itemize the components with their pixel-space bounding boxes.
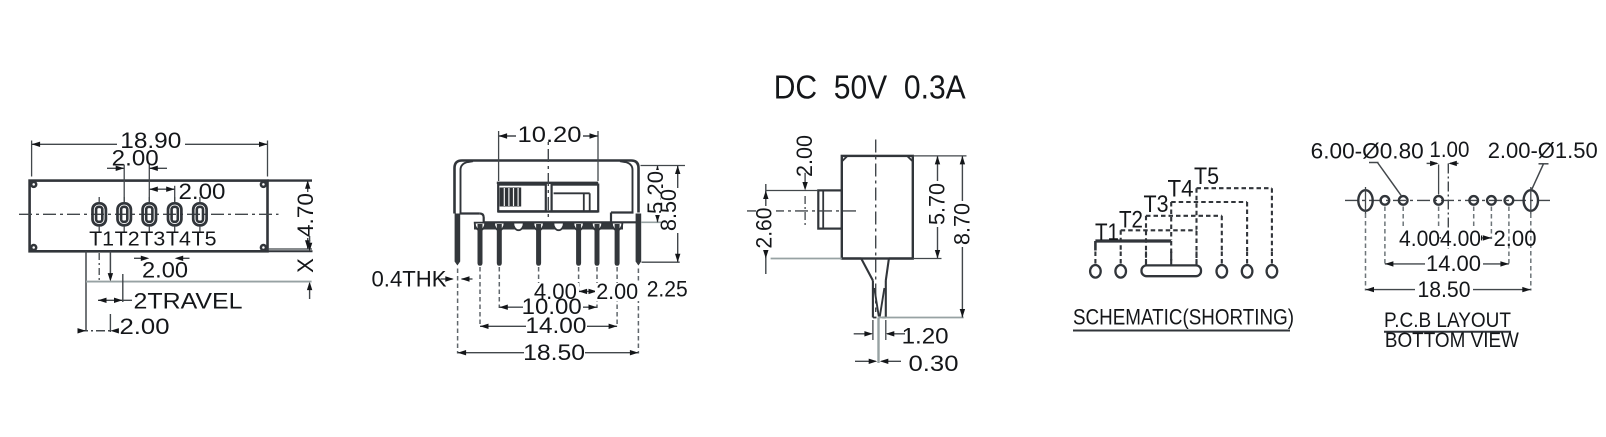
pcb layout: hole extension lines [1366, 207, 1531, 291]
front view: dimension 10.00 [499, 294, 597, 319]
top view: terminal T4 contact [168, 197, 181, 232]
side view: bottom edge and solder pin funnel [842, 259, 913, 318]
side view: vertical centerline [875, 140, 877, 313]
pcb layout: dimension row 4.00 4.00 2.00 [1399, 226, 1537, 251]
svg-text:BOTTOM VIEW: BOTTOM VIEW [1385, 329, 1519, 352]
top view: dimension 2.00 (T3-T4 pitch) [149, 179, 225, 204]
front view: dimension 14.00 [480, 313, 617, 338]
front view: slot opening and slider knob [497, 183, 598, 212]
side view: knob [818, 190, 842, 228]
svg-text:2TRAVEL: 2TRAVEL [134, 289, 243, 314]
side view: body outline [842, 156, 913, 259]
svg-text:4.00: 4.00 [1440, 226, 1481, 251]
side view: dimension 0.30 pin thickness [855, 351, 959, 376]
svg-text:T4: T4 [166, 228, 191, 251]
top view: dimension 2TRAVEL [98, 274, 243, 314]
pcb layout: horizontal centerline [1345, 199, 1552, 201]
front view: dimension 8.50 with extension lines [642, 166, 682, 263]
front view: dimension row 4.00 / 2.00 / 2.25 [531, 277, 688, 304]
pcb layout: caption P.C.B LAYOUT [1384, 309, 1511, 332]
schematic: wire T1 common (solid) [1095, 241, 1171, 251]
top view: dimension 4.70 height [268, 180, 319, 249]
side view: knob horizontal centerline [747, 210, 858, 212]
svg-text:T3: T3 [1144, 191, 1169, 218]
svg-text:0.4THK: 0.4THK [372, 267, 447, 292]
schematic: wire T4 (dashed) [1171, 202, 1247, 265]
svg-text:1.00: 1.00 [1429, 137, 1469, 162]
svg-text:10.20: 10.20 [518, 122, 582, 147]
schematic: caption SCHEMATIC(SHORTING) [1073, 305, 1294, 331]
front view: extension lines below pins [458, 267, 639, 354]
side view: pin wire 0.30 thick [877, 318, 879, 364]
front view: 0.4THK thickness callout [372, 267, 473, 292]
pcb layout: dimension 18.50 [1366, 277, 1531, 302]
pcb layout: mounting hole right 1.50 [1524, 187, 1538, 214]
svg-text:2.00: 2.00 [142, 258, 188, 283]
svg-text:T1: T1 [89, 228, 114, 251]
front view: bottom edge with terminal arch bosses [474, 222, 640, 230]
front view: left mounting leg 0.4THK [455, 214, 461, 266]
front view: vertical centerline [547, 125, 549, 218]
side view: dimension 2.00 knob offset [766, 135, 818, 228]
front view: right mounting leg [636, 214, 642, 266]
front view: dimension 5.20 with extension lines [641, 166, 686, 223]
svg-text:18.50: 18.50 [523, 340, 585, 365]
top view: corner rivet holes [31, 182, 266, 250]
schematic: wire T5 (dashed) [1197, 188, 1272, 264]
schematic: contact stubs [1095, 252, 1272, 265]
svg-text:T2: T2 [115, 228, 140, 251]
top view: dimension 2.00 (T2-T3 pitch) [107, 146, 167, 203]
schematic: wire T3 (dashed) [1146, 216, 1222, 265]
front view: metal cover outline [455, 161, 639, 224]
pcb layout: mounting hole left 1.50 [1358, 187, 1372, 214]
top view: dimension 18.90 overall width [32, 128, 268, 177]
svg-text:T2: T2 [1119, 206, 1143, 233]
pcb layout: pin holes 0.80 [1381, 196, 1514, 205]
pcb layout: dimension 14.00 [1385, 251, 1509, 276]
svg-text:2.25: 2.25 [647, 277, 688, 302]
top view: dimension X (body to knob face) [268, 236, 319, 299]
side view: dimension 2.60 knob height [751, 184, 842, 274]
svg-text:T5: T5 [192, 228, 217, 251]
svg-text:2.00: 2.00 [120, 314, 170, 339]
side view: dimension 5.70 body height [913, 156, 950, 259]
schematic: terminal circles [1090, 265, 1277, 278]
top view: dimension 2.00 terminal pitch (below body) [134, 256, 190, 283]
top view: knob travel construction lines [86, 251, 312, 331]
top view: terminal labels T1-T5 [89, 228, 216, 251]
schematic: wire T2 (dashed) [1121, 230, 1197, 251]
svg-text:SCHEMATIC(SHORTING): SCHEMATIC(SHORTING) [1073, 305, 1294, 330]
front view: dimension 10.20 slot width [499, 122, 598, 181]
svg-text:4.00: 4.00 [1399, 226, 1440, 251]
svg-text:2.00: 2.00 [596, 279, 638, 304]
svg-text:0.30: 0.30 [909, 351, 959, 376]
svg-text:8.50: 8.50 [656, 189, 681, 231]
svg-text:X: X [293, 258, 318, 273]
svg-text:2.00: 2.00 [112, 146, 159, 171]
top view: horizontal centerline [19, 213, 279, 215]
schematic: terminal labels [1095, 163, 1219, 246]
title DC 50V 0.3A [774, 69, 966, 106]
svg-text:T1: T1 [1095, 219, 1119, 246]
side view: dimension 1.20 pin width [854, 320, 949, 348]
svg-text:T3: T3 [140, 228, 165, 251]
svg-text:T4: T4 [1168, 176, 1194, 203]
svg-text:8.70: 8.70 [950, 203, 975, 245]
svg-text:4.70: 4.70 [293, 193, 318, 237]
top view: terminal T2 contact [118, 197, 131, 232]
svg-text:6.00-Ø0.80: 6.00-Ø0.80 [1311, 138, 1424, 163]
svg-text:2.00-Ø1.50: 2.00-Ø1.50 [1488, 138, 1598, 163]
svg-text:2.60: 2.60 [751, 208, 776, 249]
front view: solder pins [478, 224, 620, 266]
top view: switch body outline [30, 181, 268, 252]
svg-text:14.00: 14.00 [1426, 251, 1481, 276]
side view: dimension 8.70 overall height [879, 156, 975, 318]
front view: dimension 18.50 [458, 340, 639, 365]
svg-text:5.70: 5.70 [925, 183, 950, 225]
svg-text:1.20: 1.20 [902, 323, 949, 348]
pcb layout: caption BOTTOM VIEW [1385, 329, 1519, 352]
svg-text:2.00: 2.00 [792, 135, 817, 177]
pcb layout: vertical centerline [1447, 164, 1449, 250]
svg-text:T5: T5 [1194, 163, 1219, 190]
pcb layout: label 6.00-0.80 with leader [1311, 138, 1424, 196]
svg-text:18.50: 18.50 [1418, 277, 1471, 302]
pcb layout: dimension 1.00 center offset [1427, 137, 1470, 195]
top view: terminal T5 contact [193, 197, 206, 232]
top view: terminal T1 contact [93, 197, 106, 232]
svg-text:14.00: 14.00 [525, 313, 586, 338]
svg-text:2.00: 2.00 [179, 179, 226, 204]
schematic: shorting slider contact bar [1142, 265, 1202, 276]
top view: dimension 2.00 travel pitch [78, 314, 170, 339]
pcb layout: label 2.00-1.50 with leader [1488, 138, 1598, 190]
svg-text:2.00: 2.00 [1494, 226, 1537, 251]
svg-text:DC 50V 0.3A: DC 50V 0.3A [774, 69, 966, 106]
top view: terminal T3 contact [143, 197, 156, 232]
